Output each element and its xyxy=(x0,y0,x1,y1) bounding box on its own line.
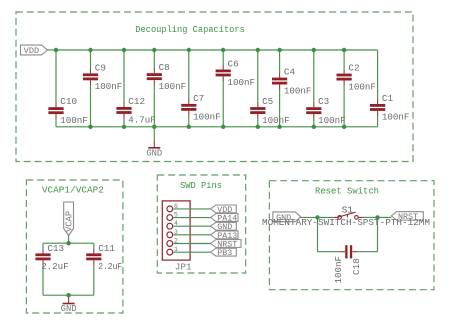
capacitor C1 xyxy=(370,100,385,116)
pin circle 2 of JP1 xyxy=(167,241,173,247)
capacitor C13 xyxy=(35,249,50,265)
junction on VDD rail at C4 xyxy=(277,48,281,52)
section frame: SWD Pins xyxy=(157,175,245,273)
section frame: Reset Switch xyxy=(269,181,434,290)
wire: column C13 xyxy=(42,243,44,249)
svg-text:C1: C1 xyxy=(382,93,394,104)
net tag PB3 xyxy=(211,248,237,258)
wire VDD to rail xyxy=(48,49,57,51)
capacitor C5 xyxy=(250,103,265,119)
pin circle 4 of JP1 xyxy=(167,223,173,229)
section frame: Decoupling Capacitors xyxy=(16,12,413,162)
pin stub C18 left xyxy=(340,251,345,253)
junction on VDD rail at C3 xyxy=(312,48,316,52)
wire: column C7 xyxy=(188,50,190,100)
svg-text:100nF: 100nF xyxy=(95,81,123,92)
capacitor C11 xyxy=(86,249,101,265)
capacitor C3 xyxy=(306,103,321,119)
switch S1 arm xyxy=(338,212,355,217)
svg-text:C11: C11 xyxy=(98,243,115,254)
svg-text:C18: C18 xyxy=(351,258,362,275)
wire: column C10 xyxy=(55,50,57,103)
capacitor C12 xyxy=(116,103,131,119)
net tag GND xyxy=(211,222,237,232)
pin circle 3 of JP1 xyxy=(167,232,173,238)
wire: VDD top rail xyxy=(56,49,378,51)
wire pin 5 to PA14 tag xyxy=(173,217,210,219)
wire: column C3 xyxy=(313,50,315,103)
wire pin 6 to VDD tag xyxy=(173,208,210,210)
capacitor C2 xyxy=(337,69,352,85)
wire: column C9 xyxy=(90,50,92,69)
svg-text:100nF: 100nF xyxy=(348,81,376,92)
svg-text:C7: C7 xyxy=(193,93,204,104)
junction on ground rail at C7 xyxy=(187,125,191,129)
svg-text:S1: S1 xyxy=(342,204,354,215)
pin circle 6 of JP1 xyxy=(167,206,173,212)
net tag PA14 xyxy=(211,213,239,223)
svg-text:VDD: VDD xyxy=(24,46,40,56)
switch S1 actuator tick xyxy=(346,215,348,218)
junction on ground rail at C6 xyxy=(221,125,225,129)
svg-text:100nF: 100nF xyxy=(159,81,187,92)
wire: column C2 xyxy=(343,50,345,69)
junction on VDD rail at C7 xyxy=(187,48,191,52)
junction on VDD rail at C2 xyxy=(342,48,346,52)
svg-text:PB3: PB3 xyxy=(217,248,232,258)
ground symbol GND (decoupling) xyxy=(146,127,162,159)
wire pin 2 to NRST tag xyxy=(173,243,210,245)
wire junction to S1 xyxy=(318,216,335,218)
wire: column C8 xyxy=(153,50,155,69)
svg-text:JP1: JP1 xyxy=(175,261,192,272)
svg-text:MOMENTARY-SWITCH-SPST-PTH-12MM: MOMENTARY-SWITCH-SPST-PTH-12MM xyxy=(262,218,430,228)
connector JP1 body xyxy=(162,201,190,260)
wire: column C4 xyxy=(279,50,281,73)
capacitor C18 (rotated) xyxy=(345,245,352,258)
wire S1 to right junction xyxy=(358,216,362,218)
svg-text:100nF: 100nF xyxy=(382,112,410,123)
svg-text:SWD Pins: SWD Pins xyxy=(180,180,222,191)
junction on ground rail at C3 xyxy=(312,125,316,129)
svg-text:100nF: 100nF xyxy=(228,77,256,88)
net tag GND (reset) xyxy=(273,212,301,223)
svg-text:2.2uF: 2.2uF xyxy=(98,261,122,272)
svg-text:100nF: 100nF xyxy=(333,256,344,284)
svg-text:C4: C4 xyxy=(284,67,296,78)
pin stub C18 right xyxy=(352,251,357,253)
svg-text:VCAP1/VCAP2: VCAP1/VCAP2 xyxy=(42,184,104,195)
svg-text:VCAP: VCAP xyxy=(65,211,75,232)
wire junction to NRST tag xyxy=(378,216,392,218)
svg-text:100nF: 100nF xyxy=(284,85,312,96)
wire: column C11 xyxy=(93,243,95,249)
junction on ground rail at C12 xyxy=(122,125,126,129)
junction on ground rail at C4 xyxy=(277,125,281,129)
net tag VDD xyxy=(211,205,237,215)
svg-text:4.7uF: 4.7uF xyxy=(128,115,156,126)
junction on ground rail at C5 xyxy=(256,125,260,129)
svg-text:C2: C2 xyxy=(348,63,359,74)
capacitor C4 xyxy=(272,73,287,89)
net tag VDD xyxy=(21,45,48,56)
wire: left drop to C18 xyxy=(317,217,319,251)
ground symbol GND (vcap) xyxy=(61,295,77,314)
pin stub S1 left xyxy=(334,216,338,218)
switch S1 contacts xyxy=(338,216,358,220)
svg-text:C12: C12 xyxy=(128,96,145,107)
capacitor C9 xyxy=(83,69,98,85)
pin circle 1 of JP1 xyxy=(167,249,173,255)
svg-text:C10: C10 xyxy=(60,96,77,107)
junction VCAP bottom xyxy=(66,293,70,297)
svg-text:C5: C5 xyxy=(262,96,273,107)
svg-text:C6: C6 xyxy=(228,58,239,69)
section frame: VCAP1/VCAP2 xyxy=(26,180,123,313)
wire: VCAP top rail xyxy=(43,242,94,244)
junction on ground rail at C2 xyxy=(342,125,346,129)
wire pin 3 to PA13 tag xyxy=(173,234,210,236)
junction on VDD rail at C9 xyxy=(88,48,92,52)
wire: VCAP bottom rail xyxy=(43,294,94,296)
wire VCAP tag stub xyxy=(68,236,70,244)
wire: column C5 xyxy=(257,50,259,103)
svg-text:C8: C8 xyxy=(159,62,170,73)
junction on VDD rail at C5 xyxy=(256,48,260,52)
wire: column C1 xyxy=(377,50,379,100)
wire pin 1 to PB3 tag xyxy=(173,251,210,253)
wire GND tag to junction xyxy=(301,216,318,218)
svg-text:GND: GND xyxy=(146,149,162,159)
svg-text:100nF: 100nF xyxy=(262,115,290,126)
junction on VDD rail at C8 xyxy=(152,48,156,52)
capacitor C8 xyxy=(147,69,162,85)
junction on VDD rail at C10 xyxy=(54,48,58,52)
svg-text:C3: C3 xyxy=(318,96,329,107)
junction on ground rail at C9 xyxy=(88,125,92,129)
svg-text:100nF: 100nF xyxy=(193,112,221,123)
svg-text:100nF: 100nF xyxy=(60,115,88,126)
net tag PA13 xyxy=(211,231,239,241)
svg-text:Reset Switch: Reset Switch xyxy=(315,186,379,197)
capacitor C7 xyxy=(181,99,196,115)
junction on VDD rail at C6 xyxy=(221,48,225,52)
svg-text:Decoupling Capacitors: Decoupling Capacitors xyxy=(135,25,245,35)
svg-text:2.2uF: 2.2uF xyxy=(41,261,68,272)
junction left of S1 xyxy=(315,215,319,219)
capacitor C10 xyxy=(48,103,63,119)
net tag NRST xyxy=(211,239,242,249)
net tag VCAP (vertical) xyxy=(64,202,75,236)
svg-text:C13: C13 xyxy=(47,243,64,254)
svg-text:100nF: 100nF xyxy=(318,115,346,126)
svg-text:GND: GND xyxy=(61,304,77,314)
junction on ground rail at C8 xyxy=(152,125,156,129)
wire: ground bottom rail xyxy=(56,126,378,128)
wire: C18 to right riser xyxy=(357,251,377,253)
pin circle 5 of JP1 xyxy=(167,215,173,221)
wire pin 4 to GND tag xyxy=(173,225,210,227)
wire: column C6 xyxy=(222,50,224,65)
junction VCAP top xyxy=(66,241,70,245)
svg-text:C9: C9 xyxy=(95,62,106,73)
capacitor C6 xyxy=(216,65,231,81)
net tag NRST (reset) xyxy=(391,212,423,222)
wire: column C12 xyxy=(123,50,125,103)
junction right of S1 xyxy=(375,215,379,219)
junction on VDD rail at C12 xyxy=(122,48,126,52)
